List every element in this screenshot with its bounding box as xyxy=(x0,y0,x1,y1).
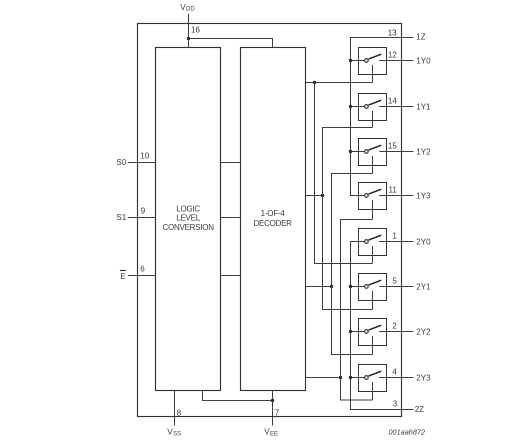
svg-text:1: 1 xyxy=(392,231,397,240)
wire ch3 bus to 1Y3 control xyxy=(341,220,373,378)
analog switch 2Y1 (pin 5) xyxy=(351,274,432,310)
svg-text:2Y2: 2Y2 xyxy=(416,327,431,336)
svg-text:13: 13 xyxy=(388,28,397,37)
svg-text:LEVEL: LEVEL xyxy=(176,214,200,223)
wire ch2 bus to 1Y2 control xyxy=(332,174,373,287)
power pin VSS (pin 8) xyxy=(167,391,181,438)
wire ch3 bus to 2Y3 control xyxy=(341,378,373,401)
junction node 2Z bus / 2Y1 input xyxy=(349,285,352,288)
svg-text:4: 4 xyxy=(392,367,397,376)
junction node ch2 output / ch2 bus xyxy=(330,285,333,288)
wire decoder output ch0 to 1Y0 control xyxy=(306,82,373,84)
block U1: LOGIC LEVEL CONVERSION xyxy=(156,48,221,391)
svg-text:2Z: 2Z xyxy=(415,405,424,414)
analog switch 1Y1 (pin 14) xyxy=(351,94,432,128)
wire ch2 bus to 2Y2 control xyxy=(332,287,373,355)
svg-text:9: 9 xyxy=(141,206,146,215)
svg-text:SS: SS xyxy=(173,431,181,437)
svg-text:15: 15 xyxy=(388,141,397,150)
svg-text:1-OF-4: 1-OF-4 xyxy=(261,209,286,218)
svg-text:7: 7 xyxy=(275,408,280,417)
svg-text:3: 3 xyxy=(393,400,398,409)
junction node ch1 output / ch1 bus xyxy=(321,194,324,197)
svg-text:1Y0: 1Y0 xyxy=(416,56,431,65)
svg-text:E: E xyxy=(120,272,125,281)
wire ch1 bus to 1Y1 control xyxy=(323,128,373,196)
svg-text:6: 6 xyxy=(140,264,145,273)
common pin 2Z (pin 3) and bus to switches 2Y0-2Y3 xyxy=(351,242,425,414)
wire ch0 bus down to 2Y0 control xyxy=(315,83,373,264)
svg-text:8: 8 xyxy=(177,408,182,417)
svg-text:16: 16 xyxy=(191,25,200,34)
svg-text:S0: S0 xyxy=(116,158,126,167)
analog switch 2Y3 (pin 4) xyxy=(351,365,432,401)
svg-text:10: 10 xyxy=(140,151,149,160)
input pin E (pin 6) xyxy=(120,264,156,281)
svg-text:12: 12 xyxy=(388,50,397,59)
junction node ch3 output / ch3 bus xyxy=(339,376,342,379)
svg-text:DECODER: DECODER xyxy=(253,219,292,228)
svg-text:11: 11 xyxy=(388,185,397,194)
IC outer boundary box xyxy=(138,24,402,417)
block U2: 1-OF-4 DECODER xyxy=(241,48,306,391)
input pin S1 (pin 9) xyxy=(116,206,155,222)
svg-text:LOGIC: LOGIC xyxy=(176,204,200,213)
junction node 1Z bus / 1Y0 input xyxy=(349,59,352,62)
junction node 2Z bus / 2Y2 input xyxy=(349,330,352,333)
svg-text:EE: EE xyxy=(270,431,278,437)
junction node on VDD line xyxy=(187,37,190,40)
svg-text:CONVERSION: CONVERSION xyxy=(162,223,214,232)
svg-text:2Y1: 2Y1 xyxy=(416,282,431,291)
junction node on VEE line xyxy=(271,399,274,402)
junction node 1Z bus / 1Y2 input xyxy=(349,150,352,153)
common pin 1Z (pin 13) and bus to switches 1Y0-1Y3 xyxy=(351,28,426,195)
svg-text:2Y0: 2Y0 xyxy=(416,237,431,246)
analog switch 2Y0 (pin 1) xyxy=(351,229,432,264)
analog switch 1Y0 (pin 12) xyxy=(351,48,432,83)
wire decoder output ch2 xyxy=(306,286,332,288)
junction node 1Z bus / 1Y1 input xyxy=(349,105,352,108)
wire VEE jog to conversion block xyxy=(203,391,273,401)
power pin VEE (pin 7) xyxy=(264,391,280,438)
wire VDD branch to decoder top xyxy=(189,39,273,48)
input pin S0 (pin 10) xyxy=(116,151,155,167)
wire S1 level-shifted to decoder xyxy=(221,217,241,219)
analog switch 1Y2 (pin 15) xyxy=(351,139,432,174)
svg-text:2: 2 xyxy=(392,321,397,330)
junction node ch0 output / ch0 bus xyxy=(313,81,316,84)
analog switch 1Y3 (pin 11) xyxy=(351,183,432,220)
svg-text:1Y3: 1Y3 xyxy=(416,191,431,200)
wire decoder output ch3 xyxy=(306,377,341,379)
svg-text:2Y3: 2Y3 xyxy=(416,373,431,382)
svg-text:1Y2: 1Y2 xyxy=(416,147,431,156)
svg-text:001aah872: 001aah872 xyxy=(389,428,426,437)
wire decoder output ch1 xyxy=(306,195,323,197)
power pin VDD (pin 16) xyxy=(180,3,200,48)
svg-text:DD: DD xyxy=(186,7,195,13)
junction node 2Z bus / 2Y3 input xyxy=(349,376,352,379)
svg-text:5: 5 xyxy=(392,276,397,285)
svg-text:1Z: 1Z xyxy=(416,33,425,42)
wire S0 level-shifted to decoder xyxy=(221,162,241,164)
analog switch 2Y2 (pin 2) xyxy=(351,319,432,355)
wire E level-shifted to decoder xyxy=(221,275,241,277)
svg-text:14: 14 xyxy=(388,96,397,105)
svg-text:1Y1: 1Y1 xyxy=(416,102,431,111)
svg-text:S1: S1 xyxy=(116,213,126,222)
wire ch1 bus to 2Y1 control xyxy=(323,196,373,310)
